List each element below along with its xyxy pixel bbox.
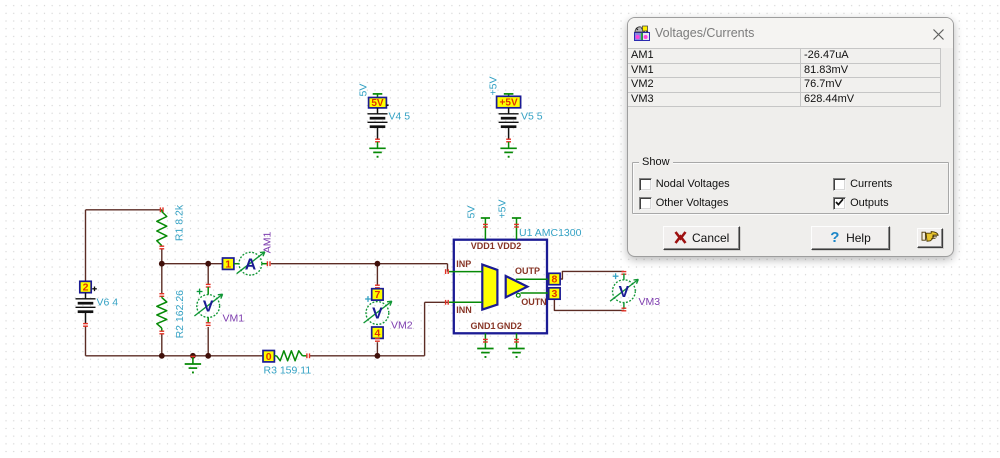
table row VM2 [628, 78, 940, 93]
results table [628, 48, 941, 107]
svg-text:7: 7 [374, 289, 380, 301]
svg-text:0: 0 [266, 351, 272, 363]
wire bottom rail left (to R3) [86, 355, 264, 357]
pin label GND2 [497, 321, 522, 331]
dialog Voltages/Currents [627, 17, 954, 257]
label V6 4 [97, 297, 119, 309]
label AM1 [262, 231, 274, 253]
pin label OUTP [515, 266, 540, 276]
U1 pin INP [446, 269, 483, 274]
U1 output triangle [506, 276, 528, 297]
svg-text:INN: INN [456, 305, 472, 315]
wire V6 minus lead to bottom rail [85, 327, 87, 356]
label VM3 [639, 296, 661, 308]
svg-text:VM3: VM3 [639, 296, 661, 308]
wire left vertical (V6 plus lead) [85, 210, 87, 282]
svg-text:8: 8 [551, 274, 557, 286]
U1 pin OUTN [521, 292, 549, 294]
wire R1 bottom to node [161, 249, 163, 264]
svg-text:OUTP: OUTP [515, 266, 540, 276]
svg-text:GND2: GND2 [497, 321, 522, 331]
svg-text:AM1: AM1 [262, 231, 274, 253]
junction node R2 bottom [159, 353, 165, 359]
svg-text:5V: 5V [371, 98, 384, 109]
svg-text:V6 4: V6 4 [97, 297, 119, 309]
label +5V at VDD2 [496, 200, 508, 219]
svg-text:2: 2 [83, 282, 89, 294]
wire top-left horizontal [86, 209, 162, 211]
svg-text:V: V [203, 299, 214, 316]
button Help [811, 226, 890, 250]
dialog title text [655, 26, 754, 40]
svg-text:INP: INP [456, 259, 471, 269]
U1 pin VDD1 [481, 218, 490, 240]
node box 3 [549, 288, 560, 300]
pin label INP [456, 259, 471, 269]
wire node row to AM1 label box [162, 263, 223, 265]
label +5V at V5 [488, 77, 500, 96]
svg-text:U1 AMC1300: U1 AMC1300 [519, 227, 582, 239]
svg-text:R3 159.11: R3 159.11 [264, 365, 312, 377]
junction node VM2 bottom [375, 353, 381, 359]
wire OUTN loop to VM3 minus [554, 300, 624, 311]
checkbox Nodal Voltages [638, 178, 640, 190]
label R3 159.11 [264, 365, 312, 377]
junction node R1/R2/AM1 [159, 261, 165, 267]
U1 pin VDD2 [512, 218, 521, 240]
label 5V at VDD1 [465, 206, 477, 219]
table row VM3 [628, 93, 940, 108]
pin label VDD1 [471, 241, 495, 251]
svg-text:5V: 5V [465, 206, 477, 219]
wire node to R2 top [161, 264, 163, 294]
dialog title bar [628, 18, 953, 48]
svg-text:V4 5: V4 5 [389, 111, 411, 123]
label V4 5 [389, 111, 411, 123]
wire R3 to INN riser [310, 302, 448, 356]
checkbox Outputs (checked) [832, 197, 834, 209]
ground bottom rail [185, 356, 201, 374]
wire VM1 lower stub [207, 327, 209, 356]
label R1 8.2k [174, 204, 186, 241]
svg-text:+5V: +5V [496, 200, 508, 219]
wire AM1 to IC INP [271, 264, 448, 272]
junction node ground tap [190, 353, 196, 359]
table row AM1 [628, 49, 940, 64]
group box Show [632, 162, 949, 214]
voltmeter VM3 [610, 272, 638, 311]
label V5 5 [521, 111, 543, 123]
U1 pin OUTP [516, 278, 549, 280]
label R2 162.26 [174, 290, 186, 339]
svg-text:4: 4 [374, 327, 380, 339]
svg-text:5V: 5V [358, 84, 370, 97]
U1 pin GND1 with ground [477, 333, 493, 358]
ammeter AM1 [223, 252, 271, 275]
svg-text:R2 162.26: R2 162.26 [174, 290, 186, 339]
svg-text:A: A [245, 256, 256, 273]
label U1 AMC1300 [519, 227, 582, 239]
op-amp U1 AMC1300 body [454, 240, 547, 334]
voltmeter VM2 [364, 285, 392, 341]
resistor R1 [157, 207, 167, 248]
voltage source V4 [368, 94, 389, 158]
dialog icon [634, 25, 650, 41]
voltmeter VM1 [194, 284, 222, 325]
junction node VM1 bottom [205, 353, 211, 359]
junction node VM1 top [205, 261, 211, 267]
svg-text:+5V: +5V [500, 97, 518, 108]
svg-text:VM1: VM1 [223, 313, 245, 325]
svg-text:V5 5: V5 5 [521, 111, 543, 123]
pin label INN [456, 305, 472, 315]
button hand (apply) [917, 228, 943, 248]
wire OUTP loop to VM3 plus [560, 271, 624, 279]
group box label Show [639, 156, 673, 168]
svg-text:GND1: GND1 [470, 321, 495, 331]
svg-text:VDD1: VDD1 [471, 241, 495, 251]
resistor R2 [157, 294, 167, 334]
svg-text:R1 8.2k: R1 8.2k [174, 204, 186, 241]
button Cancel [663, 226, 740, 250]
table row VM1 [628, 64, 940, 79]
wire VM2 lower stub [376, 342, 378, 356]
pin label GND1 [470, 321, 495, 331]
svg-text:+5V: +5V [488, 77, 500, 96]
svg-text:OUTN: OUTN [521, 297, 547, 307]
voltage source V5 [497, 94, 521, 158]
svg-text:V: V [372, 306, 383, 323]
U1 input buffer triangle [482, 265, 497, 310]
label VM1 [223, 313, 245, 325]
U1 pin GND2 with ground [508, 333, 524, 358]
wire VM2 upper stub [376, 264, 378, 285]
resistor R3 [263, 351, 310, 363]
svg-text:VDD2: VDD2 [497, 241, 521, 251]
label 5V at V4 [358, 84, 370, 97]
checkbox Other Voltages [638, 197, 640, 209]
pin label VDD2 [497, 241, 521, 251]
label VM2 [391, 320, 413, 332]
svg-text:3: 3 [551, 288, 557, 300]
dialog close button [933, 27, 944, 45]
node box 8 [549, 273, 560, 285]
svg-text:V: V [619, 284, 630, 301]
wire VM1 upper stub [207, 264, 209, 285]
svg-text:1: 1 [225, 258, 231, 270]
pin label OUTN [521, 297, 547, 307]
checkbox Currents [832, 178, 834, 190]
voltage source V6 [76, 281, 97, 326]
svg-text:VM2: VM2 [391, 320, 413, 332]
U1 pin INN [446, 300, 483, 305]
junction node VM2 top [375, 261, 381, 267]
wire R2 bottom to bottom rail [161, 334, 163, 356]
